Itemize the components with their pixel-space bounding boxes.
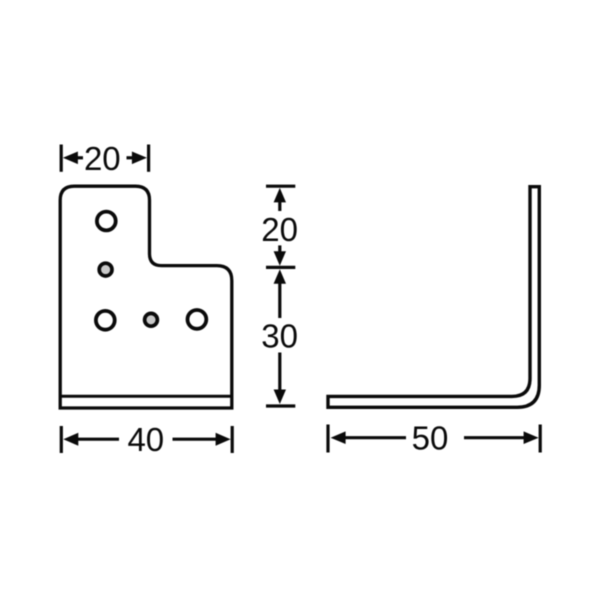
dimension 20 right: top tick [266,185,295,188]
bracket side view profile [328,187,539,408]
dimension 50 bottom: right tick [539,425,542,453]
dimension 30 right: label [261,318,298,355]
dimension 50 bottom: label [412,420,449,457]
hole top (large) [97,212,116,231]
dimension 40 bottom: left tick [60,426,63,453]
dimension 20 top: left arrow [63,152,83,165]
dimension 20 right: down arrow [274,245,286,265]
hole bottom-right (large) [188,310,207,329]
svg-text:20: 20 [261,211,298,248]
dimension 30 right: down arrow [274,353,286,405]
dimension 40 bottom: label [127,421,164,458]
dimension 50 bottom: right line and arrow [464,431,539,444]
dimension 50 bottom: left tick [326,425,329,453]
dimension 40 bottom: right tick [231,426,234,453]
hole bottom-left (large) [96,311,115,330]
dimension 20 top: right arrow [127,152,147,165]
dimension 20 top: left tick [60,145,63,172]
dimension 20 right: label [261,211,298,248]
dimension 40 bottom: right line and arrow [173,433,231,446]
bracket front view bottom flange line [60,395,232,398]
dimension 30 right: up arrow [274,269,286,318]
svg-text:20: 20 [84,140,121,177]
svg-text:30: 30 [261,318,298,355]
svg-text:50: 50 [412,420,449,457]
hole upper small (gray filled) [99,263,112,276]
dimension 50 bottom: left arrow and line [331,431,406,444]
dimension 20 top: right tick [147,145,150,172]
dimension right: middle tick [266,266,295,269]
svg-text:40: 40 [127,421,164,458]
dimension right: bottom tick [266,404,295,407]
bracket front view outline [60,186,232,408]
dimension 40 bottom: left arrow and line [63,433,119,446]
hole bottom-middle small (gray filled) [145,313,158,326]
dimension 20 right: up arrow [274,188,286,211]
dimension 20 top: label [84,140,121,177]
